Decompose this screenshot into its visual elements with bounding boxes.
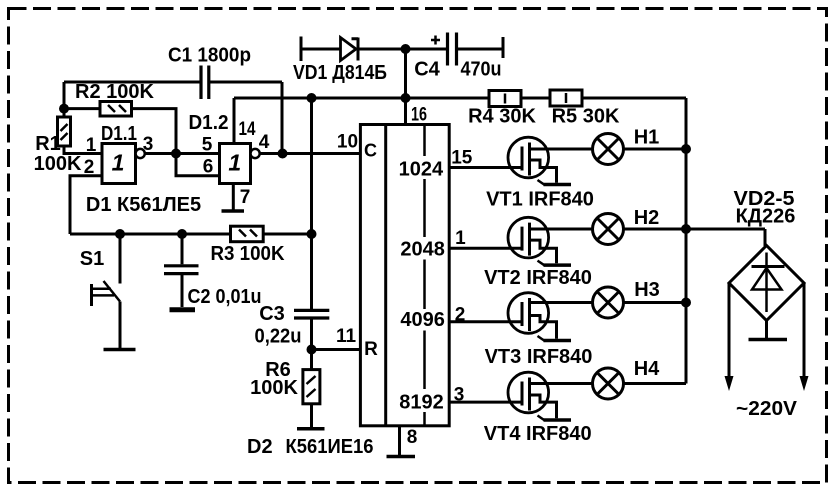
wire pin4 output bbox=[260, 152, 283, 155]
node bus H1 bbox=[681, 144, 691, 154]
ground bar bridge minus bbox=[765, 321, 768, 339]
svg-text:0,22u: 0,22u bbox=[255, 326, 302, 348]
arrow ~220V right bbox=[800, 376, 809, 391]
wire C1 right plate down bbox=[209, 82, 282, 154]
svg-text:H1: H1 bbox=[634, 127, 660, 149]
wire pin14 power bbox=[233, 98, 236, 144]
node pin3 junction bbox=[171, 149, 181, 159]
capacitor C3 0,22u bbox=[294, 310, 329, 318]
capacitor C2 0,01u bbox=[181, 234, 184, 264]
node bus H3 bbox=[681, 298, 691, 308]
svg-text:R5 30K: R5 30K bbox=[552, 106, 620, 128]
wire bus to bridge bbox=[686, 229, 765, 246]
D1.1 output bubble bbox=[136, 149, 145, 158]
svg-text:R2 100K: R2 100K bbox=[75, 81, 154, 103]
svg-text:7: 7 bbox=[240, 187, 251, 208]
node S1 tap bbox=[115, 229, 125, 239]
resistor R2 100K bbox=[100, 102, 132, 117]
svg-text:16: 16 bbox=[411, 105, 427, 126]
wire pin8 ground bbox=[398, 426, 401, 455]
wire pin4 to pin10 C input bbox=[283, 152, 361, 155]
svg-text:1: 1 bbox=[112, 150, 125, 176]
node rail-pin16 bbox=[401, 93, 411, 103]
svg-text:15: 15 bbox=[451, 148, 473, 169]
transistor VT1 IRF840 bbox=[508, 137, 593, 185]
svg-text:8192: 8192 bbox=[399, 392, 444, 414]
wire top node down to rail bbox=[404, 49, 407, 98]
svg-text:H3: H3 bbox=[634, 279, 660, 301]
lamp H1 bbox=[593, 134, 687, 165]
wire VD1 left terminal bbox=[301, 37, 341, 62]
diode bridge VD2-5 KD226 bbox=[729, 246, 804, 321]
node R1/R2 junction bbox=[59, 104, 69, 114]
svg-text:1: 1 bbox=[455, 228, 466, 249]
wire bridge AC right lead bbox=[803, 283, 806, 377]
wire pin1 to VT2 gate bbox=[449, 247, 522, 250]
lamp H3 bbox=[593, 287, 687, 318]
IC D2 K561IE16 box bbox=[360, 125, 449, 426]
svg-text:1: 1 bbox=[228, 150, 241, 176]
svg-text:D1.1: D1.1 bbox=[101, 123, 137, 145]
svg-text:~220V: ~220V bbox=[736, 398, 798, 420]
lamp H2 bbox=[593, 214, 687, 245]
node C3/R6/pin11 junction bbox=[307, 345, 317, 355]
wire R1 top vertical bbox=[63, 82, 66, 117]
wire R2 right down to gate output node bbox=[132, 109, 177, 154]
svg-text:14: 14 bbox=[239, 119, 256, 140]
wire R1 bottom to pin1 bbox=[64, 146, 102, 154]
resistor R1 100K bbox=[58, 117, 71, 146]
wire vertical feed C3/R6 bbox=[310, 98, 313, 310]
svg-text:3: 3 bbox=[143, 134, 154, 155]
transistor VT2 IRF840 bbox=[508, 217, 593, 265]
ground bar C2 bbox=[170, 307, 196, 312]
svg-text:C2 0,01u: C2 0,01u bbox=[188, 286, 262, 308]
ground bar R6 bbox=[297, 427, 325, 431]
op-amp D1.2 gate box bbox=[220, 144, 251, 184]
ground bar pin7 bbox=[222, 209, 245, 213]
svg-text:VT2 IRF840: VT2 IRF840 bbox=[484, 267, 592, 289]
svg-text:5: 5 bbox=[202, 135, 213, 156]
svg-text:2: 2 bbox=[455, 305, 466, 326]
wire pin3 to junction bbox=[145, 152, 176, 155]
arrow ~220V left bbox=[725, 376, 734, 391]
transistor VT3 IRF840 bbox=[508, 293, 593, 341]
wire power rail bbox=[234, 98, 686, 384]
svg-text:8: 8 bbox=[407, 427, 418, 448]
wire junction to pin5 bbox=[176, 152, 220, 155]
svg-text:S1: S1 bbox=[80, 248, 104, 270]
svg-text:D2: D2 bbox=[247, 436, 273, 458]
capacitor C1 1800p bbox=[201, 66, 209, 100]
resistor R5 30K bbox=[550, 90, 582, 106]
node VD1/C4 junction bbox=[401, 44, 411, 54]
capacitor C4 470u polarized bbox=[448, 33, 457, 66]
svg-text:VT4 IRF840: VT4 IRF840 bbox=[484, 423, 592, 445]
svg-text:470u: 470u bbox=[461, 59, 502, 81]
wire bridge AC left lead bbox=[728, 283, 731, 377]
svg-text:3: 3 bbox=[454, 385, 465, 406]
svg-text:R: R bbox=[364, 339, 378, 360]
node R3 right junction bbox=[307, 229, 317, 239]
wire pin7 ground stem bbox=[232, 184, 235, 211]
svg-text:2: 2 bbox=[84, 157, 95, 178]
svg-text:D1 К561ЛЕ5: D1 К561ЛЕ5 bbox=[86, 194, 201, 216]
svg-text:6: 6 bbox=[203, 157, 214, 178]
svg-text:4096: 4096 bbox=[400, 309, 445, 331]
svg-text:КД226: КД226 bbox=[736, 206, 796, 228]
lamp H4 bbox=[593, 368, 687, 399]
svg-text:1: 1 bbox=[86, 135, 97, 156]
node bus H2 bbox=[681, 224, 691, 234]
wire bottom rail bbox=[70, 233, 312, 236]
node C2 tap bbox=[177, 229, 187, 239]
wire pin16 bbox=[404, 98, 407, 125]
ground bar pin8 bbox=[387, 455, 416, 459]
svg-text:VT3 IRF840: VT3 IRF840 bbox=[485, 346, 593, 368]
wire C1 top-left bbox=[64, 81, 200, 84]
resistor R4 30K bbox=[489, 91, 521, 107]
wire pin2 to VT3 gate bbox=[449, 320, 522, 323]
svg-text:C3: C3 bbox=[259, 303, 285, 325]
svg-text:C1 1800p: C1 1800p bbox=[168, 45, 251, 67]
node rail-C3 branch bbox=[307, 93, 317, 103]
resistor R6 100K bbox=[310, 350, 313, 370]
svg-text:11: 11 bbox=[336, 326, 357, 347]
wire pin3 to VT4 gate bbox=[449, 401, 522, 404]
svg-text:100K: 100K bbox=[250, 377, 298, 399]
D1.2 output bubble bbox=[251, 149, 260, 158]
wire R2 branch bbox=[64, 107, 100, 110]
resistor R3 100K bbox=[231, 226, 264, 242]
svg-text:R1: R1 bbox=[35, 133, 61, 155]
wire pin2 left and down bbox=[70, 176, 102, 234]
diode VD1 zener bbox=[341, 38, 357, 61]
svg-text:4: 4 bbox=[259, 132, 270, 153]
op-amp D1.1 gate box bbox=[102, 144, 136, 184]
svg-text:10: 10 bbox=[337, 132, 358, 153]
switch S1 bbox=[119, 234, 122, 284]
svg-text:VT1 IRF840: VT1 IRF840 bbox=[486, 189, 594, 211]
svg-text:1024: 1024 bbox=[399, 159, 444, 181]
svg-text:H4: H4 bbox=[634, 358, 660, 380]
svg-text:100K: 100K bbox=[34, 153, 82, 175]
svg-text:C: C bbox=[364, 141, 377, 161]
wire C4 right terminal bbox=[457, 37, 503, 58]
svg-text:H2: H2 bbox=[634, 207, 660, 229]
ground bar S1 bbox=[104, 348, 136, 352]
svg-text:2048: 2048 bbox=[400, 239, 445, 261]
svg-text:C4: C4 bbox=[414, 59, 440, 81]
wire VD1 cathode to C4 bbox=[358, 48, 447, 51]
node pin4 junction bbox=[278, 149, 288, 159]
wire pin11 R input bbox=[312, 348, 361, 351]
wire pin15 to VT1 gate bbox=[449, 166, 522, 169]
transistor VT4 IRF840 bbox=[508, 372, 593, 420]
svg-text:D1.2: D1.2 bbox=[189, 112, 229, 134]
svg-text:VD1 Д814Б: VD1 Д814Б bbox=[293, 62, 387, 84]
wire junction down to pin6 bbox=[176, 154, 220, 176]
svg-text:R4 30K: R4 30K bbox=[468, 106, 536, 128]
svg-text:R3 100K: R3 100K bbox=[211, 243, 286, 265]
svg-text:К561ИЕ16: К561ИЕ16 bbox=[286, 436, 374, 458]
